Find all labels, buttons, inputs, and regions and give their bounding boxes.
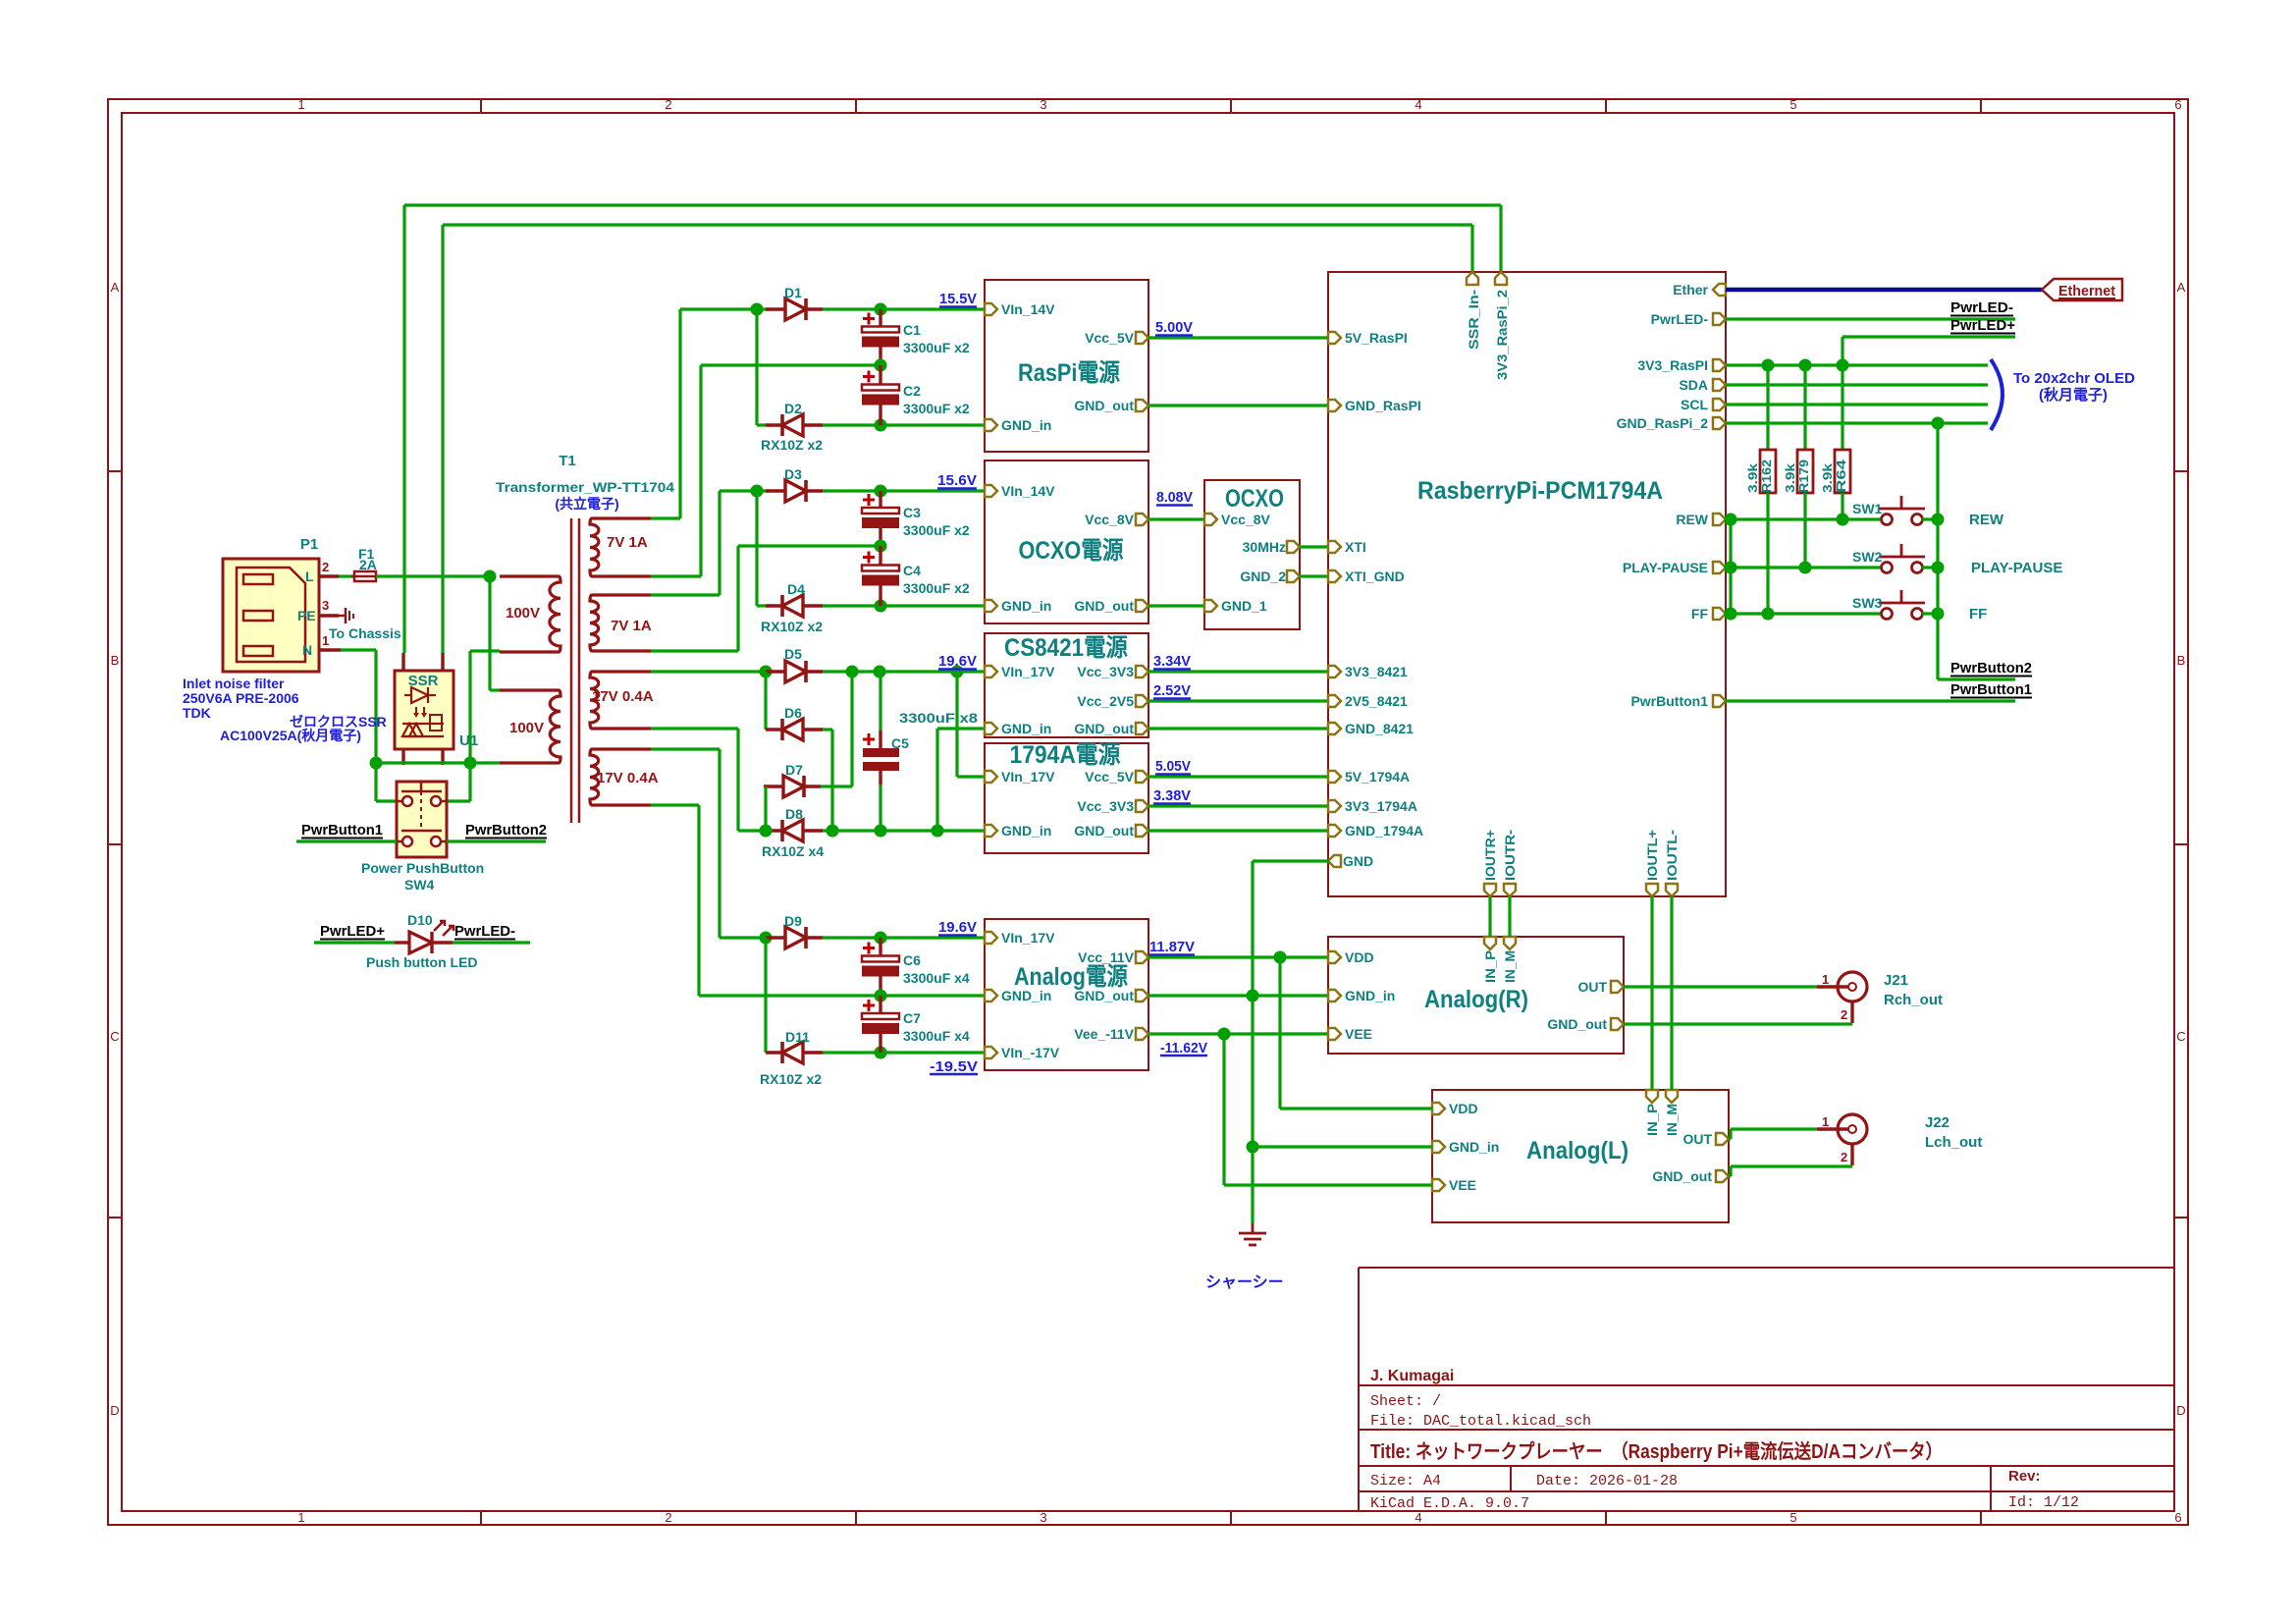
sheet pin IOUTL+ — [1646, 884, 1658, 896]
sheet pin IN_M AnalogL — [1666, 1090, 1678, 1103]
capacitor C5 — [863, 672, 899, 831]
svg-text:RX10Z x2: RX10Z x2 — [761, 619, 823, 634]
svg-text:IN_M: IN_M — [1664, 1104, 1680, 1136]
T1 7V a — [607, 534, 648, 551]
pin label VIn_17V 1794A — [1001, 769, 1055, 785]
wire 7V1 bottom lead — [651, 574, 701, 577]
wire D6 to GND rail — [830, 730, 833, 831]
wire 3V3_RasPI to OLED — [1726, 363, 1988, 366]
svg-text:Vcc_3V3: Vcc_3V3 — [1077, 798, 1134, 814]
sheet pin Vcc_2V5 CS8421 — [1136, 695, 1148, 707]
svg-text:3.9k: 3.9k — [1820, 462, 1835, 493]
svg-text:19.6V: 19.6V — [938, 653, 977, 670]
pin label PwrButton1 — [1630, 693, 1708, 709]
sheet pin GND_out AnalogR — [1611, 1018, 1624, 1030]
sheet pin VIn_17V 1794A — [985, 771, 997, 783]
net label 5.05V — [1155, 758, 1191, 775]
D6 label — [784, 705, 802, 721]
svg-text:VEE: VEE — [1449, 1177, 1476, 1193]
pin label 30MHz OCXO — [1243, 539, 1286, 555]
T1 17V a — [592, 688, 654, 705]
sheet pin VIn_17V Analog — [985, 932, 997, 944]
svg-text:SW2: SW2 — [1852, 549, 1883, 565]
wire GND_1 — [1148, 604, 1204, 607]
pin label GND_in AnalogL — [1449, 1139, 1499, 1155]
junction D7 top — [846, 666, 859, 678]
svg-text:Analog(L): Analog(L) — [1526, 1137, 1629, 1164]
svg-text:R162: R162 — [1759, 460, 1774, 493]
pin label GND_in CS8421 — [1001, 721, 1051, 736]
svg-text:GND_RasPI: GND_RasPI — [1345, 398, 1421, 413]
svg-text:3V3_RasPI: 3V3_RasPI — [1637, 357, 1708, 373]
diode D5 — [766, 661, 823, 682]
wire D11 to VIn_-17V — [823, 1051, 985, 1054]
T1 note — [555, 496, 618, 512]
C3 value — [903, 522, 970, 538]
svg-text:2: 2 — [322, 560, 329, 574]
junction D5 input — [760, 666, 773, 678]
sheet pin OUT AnalogL — [1716, 1133, 1729, 1145]
junction D1 input — [751, 303, 764, 316]
C2 value — [903, 401, 970, 416]
pin label 5V_RasPI — [1345, 330, 1408, 346]
wire primary2 top lead — [490, 688, 500, 691]
wire GND_1794A — [1148, 829, 1329, 832]
wire PwrButton1 left — [296, 839, 397, 842]
C7 label — [903, 1010, 921, 1026]
wire R179 bottom to PLAY — [1803, 493, 1806, 568]
wire GND_8421 — [1148, 727, 1329, 730]
title block author — [1370, 1368, 1454, 1384]
D3 label — [784, 466, 802, 482]
sheet name RasPi power — [1018, 359, 1120, 387]
net label PwrButton2 left — [465, 822, 547, 839]
wire CS8421 GND_in — [937, 727, 985, 730]
capacitor C6 — [862, 938, 899, 996]
wire PwrLED- right — [1726, 317, 2015, 320]
wire D5 to D6 vertical — [764, 672, 767, 730]
wire D1 out to RasPi sheet — [823, 307, 985, 310]
junction C4 bottom — [875, 600, 887, 613]
wire to SW4 right — [468, 763, 471, 801]
svg-text:R179: R179 — [1796, 460, 1811, 493]
pin label PLAY-PAUSE — [1623, 560, 1708, 575]
svg-text:REW: REW — [1676, 512, 1708, 527]
resistor ref R64 — [1834, 459, 1848, 493]
diode D2 — [766, 414, 823, 436]
connector J22 — [1817, 1114, 1867, 1165]
svg-text:To Chassis: To Chassis — [329, 625, 401, 641]
global label Ethernet — [2042, 279, 2122, 300]
chassis ground at PE — [339, 608, 353, 623]
svg-text:Vee_-11V: Vee_-11V — [1074, 1026, 1134, 1042]
wire 7V1 top lead — [651, 516, 680, 519]
wire D4 to GND_in OCXO — [823, 604, 985, 607]
svg-text:Vcc_3V3: Vcc_3V3 — [1077, 664, 1134, 679]
wire 17V1 top to D5 — [651, 670, 766, 673]
svg-text:GND_out: GND_out — [1074, 988, 1134, 1003]
sheet pin VIn_14V RasPi — [985, 303, 997, 315]
pin label VIn_17V CS8421 — [1001, 664, 1055, 679]
connector J21 — [1817, 972, 1867, 1023]
pin label IN_M AnalogL — [1664, 1104, 1680, 1136]
pin label GND_in 1794A — [1001, 823, 1051, 839]
svg-text:GND_out: GND_out — [1652, 1168, 1712, 1184]
svg-text:GND_1794A: GND_1794A — [1345, 823, 1423, 839]
wire 7V2 bottom rise — [736, 546, 739, 651]
svg-text:3: 3 — [1040, 97, 1046, 112]
net label PwrLED- right — [1950, 299, 2013, 316]
title block sheet — [1370, 1393, 1441, 1410]
pin label Vcc_8V OCXO — [1085, 512, 1134, 527]
wire 1794A VIn_17V — [957, 775, 985, 778]
wire 7V2 bottom lead — [651, 649, 738, 652]
sheet pin IN_P AnalogR — [1484, 937, 1496, 949]
sheet pin 3V3_8421 — [1328, 666, 1341, 677]
svg-text:IOUTL+: IOUTL+ — [1644, 830, 1660, 881]
svg-text:VIn_17V: VIn_17V — [1001, 930, 1055, 946]
connector P1 inlet — [223, 559, 341, 672]
svg-text:7V 1A: 7V 1A — [611, 618, 652, 634]
svg-text:SW3: SW3 — [1852, 595, 1883, 611]
wire Vcc_8V — [1148, 517, 1204, 520]
svg-text:C5: C5 — [891, 735, 909, 751]
junction REW pin — [1725, 514, 1737, 526]
svg-text:5: 5 — [1789, 97, 1796, 112]
wire 5V_1794A — [1148, 775, 1329, 778]
wire 2V5_8421 — [1148, 699, 1329, 702]
wire PwrLED+ to D10 — [314, 941, 395, 944]
wire 17V2 bottom drop — [697, 805, 700, 996]
svg-text:A: A — [2177, 280, 2186, 295]
wire PwrButton1 right — [1726, 699, 2015, 702]
junction C5 top — [874, 666, 886, 678]
wire VEE L — [1224, 1183, 1432, 1186]
svg-text:IN_P: IN_P — [1482, 950, 1498, 983]
svg-text:100V: 100V — [506, 605, 540, 622]
net label PwrLED+ left — [320, 923, 385, 940]
svg-text:VIn_14V: VIn_14V — [1001, 483, 1055, 499]
switch SW3 — [1879, 590, 1925, 620]
sheet Analog R — [1328, 937, 1624, 1054]
wire GND_out L jog — [1729, 1166, 1732, 1176]
net label 15.6V — [937, 472, 977, 489]
svg-text:C3: C3 — [903, 505, 921, 520]
svg-text:3300uF x2: 3300uF x2 — [903, 340, 970, 355]
svg-text:Rch_out: Rch_out — [1884, 992, 1943, 1008]
svg-text:RasberryPi-PCM1794A: RasberryPi-PCM1794A — [1417, 477, 1663, 505]
svg-text:3.34V: 3.34V — [1153, 653, 1191, 670]
D2 label — [784, 401, 802, 416]
pin label IN_P AnalogR — [1482, 950, 1498, 983]
SSR U1 — [395, 653, 454, 765]
svg-text:TDK: TDK — [183, 705, 211, 721]
C5 value — [899, 710, 978, 726]
pin label Vee_-11V Analog — [1074, 1026, 1134, 1042]
sheet pin GND_out AnalogL — [1716, 1170, 1729, 1182]
svg-text:VIn_14V: VIn_14V — [1001, 301, 1055, 317]
FF note — [1969, 606, 1987, 623]
svg-text:IOUTL-: IOUTL- — [1664, 830, 1680, 881]
svg-text:CS8421電源: CS8421電源 — [1004, 634, 1128, 662]
pin label SDA — [1679, 377, 1708, 393]
svg-text:SW1: SW1 — [1852, 501, 1883, 516]
C7 value — [903, 1028, 970, 1044]
pin label GND_2 OCXO — [1240, 568, 1286, 584]
svg-text:3: 3 — [1040, 1510, 1046, 1525]
pin label VIn_14V OCXO — [1001, 483, 1055, 499]
svg-text:IOUTR+: IOUTR+ — [1482, 830, 1498, 881]
junction CS8421 gnd — [932, 825, 944, 838]
svg-text:Vcc_11V: Vcc_11V — [1078, 949, 1134, 965]
net label 5.00V — [1155, 319, 1193, 336]
wire REW row — [1726, 517, 1882, 520]
svg-text:PE: PE — [297, 608, 316, 623]
svg-text:RX10Z x4: RX10Z x4 — [762, 843, 824, 859]
sheet pin IOUTR+ — [1484, 884, 1496, 896]
wire 17V2 bottom lead — [651, 803, 699, 806]
T1 value — [496, 479, 674, 495]
push button SW4 — [397, 782, 447, 857]
net label 11.87V — [1149, 939, 1195, 955]
wire to SW4 left — [374, 763, 377, 801]
wire fuse to transformer L — [376, 574, 490, 577]
svg-text:SSR_In-: SSR_In- — [1466, 290, 1481, 350]
chassis ground symbol — [1239, 1223, 1266, 1245]
P1 pin L — [305, 568, 314, 584]
diode D4 — [766, 595, 823, 617]
pin label GND_1 OCXO — [1221, 598, 1267, 614]
U1 label — [459, 732, 478, 749]
svg-text:GND_8421: GND_8421 — [1345, 721, 1414, 736]
svg-text:30MHz: 30MHz — [1243, 539, 1286, 555]
wire D3 out to OCXO sheet — [823, 489, 985, 492]
pin label VEE AnalogR — [1345, 1026, 1372, 1042]
svg-text:C: C — [2176, 1029, 2185, 1044]
svg-text:2: 2 — [1841, 1150, 1847, 1164]
svg-text:シャーシー: シャーシー — [1205, 1274, 1284, 1291]
svg-text:2A: 2A — [359, 557, 377, 572]
LED D10 — [395, 921, 454, 953]
svg-text:1: 1 — [1822, 1114, 1829, 1129]
sheet pin VIn_17V CS8421 — [985, 666, 997, 677]
svg-text:5V_1794A: 5V_1794A — [1345, 769, 1410, 785]
net label 3.38V — [1153, 787, 1191, 804]
sheet pin GND_in AnalogL — [1432, 1141, 1445, 1153]
svg-text:19.6V: 19.6V — [938, 919, 977, 936]
sheet pin PwrLED- — [1713, 313, 1726, 325]
net label 19.6V a — [938, 653, 977, 670]
F1 label — [358, 546, 375, 562]
svg-text:-19.5V: -19.5V — [930, 1058, 978, 1075]
svg-text:1: 1 — [1822, 972, 1829, 987]
sheet Analog power — [985, 919, 1148, 1070]
sheet pin VIn_-17V Analog — [985, 1047, 997, 1058]
pin label REW — [1676, 512, 1708, 527]
sheet pin GND_1794A — [1328, 825, 1341, 837]
svg-text:GND_in: GND_in — [1001, 823, 1051, 839]
svg-text:GND_in: GND_in — [1001, 598, 1051, 614]
svg-text:-11.62V: -11.62V — [1160, 1040, 1207, 1056]
diode D3 — [766, 480, 823, 502]
sheet pin Vcc_5V RasPi — [1136, 332, 1148, 344]
C5 label — [891, 735, 909, 751]
svg-text:Id: 1/12: Id: 1/12 — [2008, 1494, 2079, 1511]
svg-text:Power PushButton: Power PushButton — [361, 860, 484, 876]
resistor R162 — [1760, 450, 1776, 493]
wire GND_RasPi_2 to OLED — [1726, 421, 1988, 424]
wire SW2 out — [1922, 566, 1938, 568]
svg-text:XTI_GND: XTI_GND — [1345, 568, 1405, 584]
wire D10 to PwrLED- — [453, 941, 530, 944]
junction SW2 out — [1932, 562, 1945, 574]
diode D6 — [766, 719, 823, 740]
svg-text:(秋月電子): (秋月電子) — [2039, 386, 2108, 404]
svg-text:FF: FF — [1691, 606, 1709, 622]
SSR note 1 — [290, 714, 387, 730]
T1 100V a — [506, 605, 540, 622]
svg-text:C7: C7 — [903, 1010, 921, 1026]
wire D3 to D4 vertical — [755, 491, 758, 606]
pin label GND_in OCXO — [1001, 598, 1051, 614]
wire GND_in L — [1253, 1145, 1432, 1148]
sheet pin SCL — [1713, 399, 1726, 410]
svg-text:GND_out: GND_out — [1074, 398, 1134, 413]
svg-text:B: B — [111, 653, 120, 668]
inlet filter note 2 — [183, 690, 299, 706]
svg-text:7V 1A: 7V 1A — [607, 534, 648, 551]
C4 label — [903, 563, 921, 578]
wire R64 bottom to REW — [1841, 493, 1843, 519]
svg-text:VIn_17V: VIn_17V — [1001, 769, 1055, 785]
junction FF pin — [1725, 608, 1737, 621]
sheet name RasberryPi-PCM1794A — [1417, 477, 1663, 505]
capacitor C4 — [862, 546, 899, 606]
pin label Ether — [1673, 282, 1708, 298]
pin label 2V5_8421 — [1345, 693, 1408, 709]
junction SW1 out — [1932, 514, 1945, 526]
wire D7 to D8 vertical — [764, 786, 767, 831]
svg-text:C6: C6 — [903, 952, 921, 968]
wire C1 C2 midpoint — [701, 363, 881, 366]
sheet pin GND_2 OCXO — [1287, 570, 1300, 582]
svg-text:PwrLED+: PwrLED+ — [1950, 317, 2015, 334]
svg-text:D10: D10 — [407, 912, 433, 928]
pin label GND_out RasPi — [1074, 398, 1134, 413]
pin label VIn_-17V Analog — [1001, 1045, 1060, 1060]
net label 2.52V — [1153, 682, 1191, 699]
svg-text:5: 5 — [1789, 1510, 1796, 1525]
svg-text:D9: D9 — [784, 913, 802, 929]
junction D3 input — [751, 485, 764, 498]
P1 pin number 2 — [322, 560, 329, 574]
svg-text:OUT: OUT — [1577, 979, 1607, 995]
svg-text:3300uF x8: 3300uF x8 — [899, 710, 978, 726]
pin label Vcc_5V RasPi — [1085, 330, 1134, 346]
wire D9 out to Analog sheet — [823, 936, 985, 939]
title block size — [1370, 1473, 1441, 1489]
sheet pin Vcc_5V 1794A — [1136, 771, 1148, 783]
wire CS8421 GND_in drop — [935, 729, 938, 831]
svg-text:4: 4 — [1415, 97, 1421, 112]
J21 label — [1884, 972, 1908, 989]
sheet pin GND_in RasPi — [985, 419, 997, 431]
junction GND R — [1247, 990, 1259, 1002]
svg-text:2V5_8421: 2V5_8421 — [1345, 693, 1408, 709]
svg-text:Ether: Ether — [1673, 282, 1708, 298]
pin label IOUTL+ — [1644, 830, 1660, 881]
C4 value — [903, 580, 970, 596]
T1 100V b — [509, 720, 544, 736]
SW4 name — [361, 860, 484, 876]
svg-text:Vcc_5V: Vcc_5V — [1085, 769, 1134, 785]
svg-text:GND_in: GND_in — [1001, 988, 1051, 1003]
net label 3.34V — [1153, 653, 1191, 670]
wire 5V_RasPI — [1148, 336, 1329, 339]
svg-text:PwrLED+: PwrLED+ — [320, 923, 385, 940]
sheet pin IOUTL- — [1666, 884, 1678, 896]
sheet name 1794A power — [1010, 741, 1121, 769]
svg-text:D2: D2 — [784, 401, 802, 416]
svg-text:8.08V: 8.08V — [1156, 489, 1193, 506]
wire GND_out L to J22 pin2 — [1731, 1164, 1852, 1167]
svg-text:2: 2 — [665, 1510, 671, 1525]
svg-text:C: C — [110, 1029, 119, 1044]
sheet pin PLAY-PAUSE — [1713, 562, 1726, 573]
sheet name Analog L — [1526, 1137, 1629, 1164]
pin label GND_in Analog — [1001, 988, 1051, 1003]
resistor value R64 — [1820, 462, 1835, 493]
D4 label — [787, 581, 805, 597]
transformer T1 — [500, 518, 651, 823]
svg-text:GND_RasPi_2: GND_RasPi_2 — [1617, 415, 1709, 431]
wire 3V3_8421 — [1148, 670, 1329, 673]
svg-text:15.5V: 15.5V — [939, 291, 977, 307]
junction R179 bottom — [1799, 562, 1812, 574]
C2 label — [903, 383, 921, 399]
sheet pin 3V3_RasPi_2 — [1495, 272, 1507, 285]
sheet pin Vcc_8V OCXO in — [1204, 514, 1217, 525]
pin label OUT AnalogL — [1682, 1131, 1712, 1147]
pin label VDD AnalogR — [1345, 949, 1374, 965]
svg-text:Vcc_5V: Vcc_5V — [1085, 330, 1134, 346]
wire VDD L drop — [1278, 957, 1281, 1109]
svg-text:3: 3 — [322, 598, 329, 613]
svg-text:KiCad E.D.A. 9.0.7: KiCad E.D.A. 9.0.7 — [1370, 1495, 1529, 1512]
svg-text:D1: D1 — [784, 285, 802, 300]
junction C3 C4 mid — [875, 540, 887, 553]
diode D9 — [766, 927, 823, 948]
chassis note — [1205, 1274, 1284, 1291]
resistor value R179 — [1783, 462, 1797, 493]
wire GND analog R — [1148, 994, 1329, 997]
wire SDA to OLED — [1726, 383, 1988, 386]
pin label IOUTR+ — [1482, 830, 1498, 881]
svg-text:3V3_8421: 3V3_8421 — [1345, 664, 1408, 679]
wire primary2 top drop — [488, 576, 491, 690]
junction SSR bottom right — [464, 757, 477, 770]
sheet pin GND_out RasPi — [1136, 400, 1148, 411]
svg-text:A: A — [111, 280, 120, 295]
svg-text:100V: 100V — [509, 720, 544, 736]
wire analog GND_in rail — [699, 994, 985, 997]
D10 note — [366, 954, 478, 970]
wire PLAY row — [1726, 566, 1882, 568]
wire 7V2 top rise — [718, 491, 721, 595]
C6 value — [903, 970, 970, 986]
sheet pin 3V3_RasPI — [1713, 359, 1726, 371]
sheet pin IN_M AnalogR — [1504, 937, 1516, 949]
